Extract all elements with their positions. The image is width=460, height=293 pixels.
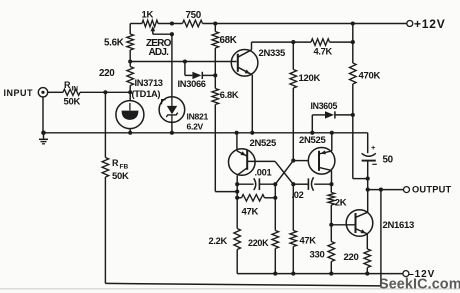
svg-text:2N525: 2N525 xyxy=(250,138,278,149)
svg-text:2N1613: 2N1613 xyxy=(383,220,414,231)
svg-text:R: R xyxy=(64,80,71,90)
svg-text:6.2V: 6.2V xyxy=(187,122,204,132)
svg-text:R: R xyxy=(112,158,119,168)
wire feedback bottom xyxy=(105,283,381,286)
resistor 47K (right) xyxy=(292,184,294,230)
wire Q2 base line xyxy=(247,160,275,162)
svg-text:OUTPUT: OUTPUT xyxy=(412,184,452,194)
svg-text:120K: 120K xyxy=(299,73,321,84)
svg-text:IN: IN xyxy=(72,86,79,93)
wire top supply rail xyxy=(130,23,142,25)
svg-text:SeekIC.com: SeekIC.com xyxy=(379,277,460,293)
resistor 68K xyxy=(214,24,216,32)
svg-text:FB: FB xyxy=(120,164,129,171)
wire -12V rail xyxy=(237,273,403,275)
svg-text:2N335: 2N335 xyxy=(259,48,287,59)
svg-text:IN3713: IN3713 xyxy=(135,78,163,88)
INPUT terminal xyxy=(38,88,47,97)
svg-text:+: + xyxy=(371,143,376,152)
capacitor .001 xyxy=(235,182,239,186)
tunnel diode IN3713 (TD1A) xyxy=(129,92,131,100)
zener diode IN821 6.2V xyxy=(171,34,173,97)
svg-text:220: 220 xyxy=(99,68,115,79)
OUTPUT terminal xyxy=(368,189,404,191)
svg-text:50: 50 xyxy=(383,155,394,166)
resistor 220 (emitter) xyxy=(364,249,371,268)
resistor 470K xyxy=(352,24,354,64)
diode IN3605 xyxy=(312,114,325,116)
resistor 220 xyxy=(127,67,134,86)
svg-text:IN3066: IN3066 xyxy=(178,79,206,89)
svg-text:50K: 50K xyxy=(64,97,81,108)
svg-text:50K: 50K xyxy=(112,171,129,182)
resistor 2.2K xyxy=(234,229,241,250)
resistor 2K xyxy=(330,184,332,192)
resistor 220K xyxy=(272,231,279,249)
svg-text:470K: 470K xyxy=(359,70,381,81)
svg-text:IN3605: IN3605 xyxy=(311,101,338,111)
diode IN3066 xyxy=(183,59,187,63)
+12V terminal xyxy=(407,21,413,27)
transistor Q2 2N525 (left) xyxy=(236,133,238,151)
potentiometer R 1K ZERO ADJ xyxy=(142,20,158,27)
svg-text:750: 750 xyxy=(186,10,202,21)
wire mid ground rail xyxy=(44,132,368,134)
svg-text:2K: 2K xyxy=(335,198,347,209)
resistor 6.8K xyxy=(212,89,219,105)
svg-text:330: 330 xyxy=(310,249,325,260)
ground xyxy=(42,97,44,133)
svg-text:47K: 47K xyxy=(242,206,259,217)
svg-text:6.8K: 6.8K xyxy=(220,90,239,100)
resistor R_FB 50K xyxy=(104,92,106,157)
resistor 330 xyxy=(329,223,333,227)
svg-text:2.2K: 2.2K xyxy=(209,236,228,246)
svg-text:5.6K: 5.6K xyxy=(104,37,124,48)
cross-coupling diagonals xyxy=(275,161,293,184)
wire 470K node down to output link xyxy=(352,115,354,179)
wire 220K branch xyxy=(274,184,276,230)
wire 6.8K line down to Q2 collector link xyxy=(214,105,216,192)
transistor Q4 2N1613 xyxy=(331,224,355,226)
wire feedback vertical xyxy=(380,190,382,286)
wire collector 2N335 to 4.7K xyxy=(252,41,312,43)
svg-text:(TD1A): (TD1A) xyxy=(132,89,161,99)
svg-text:220: 220 xyxy=(344,252,359,263)
capacitor .02 xyxy=(293,183,308,185)
resistor 47K (coupling) xyxy=(235,190,239,194)
svg-text:2N525: 2N525 xyxy=(299,135,327,146)
svg-text:68K: 68K xyxy=(220,35,237,46)
resistor R_IN 50K xyxy=(48,91,63,93)
svg-text:220K: 220K xyxy=(248,238,269,248)
scan artifact line xyxy=(0,288,460,290)
svg-text:.001: .001 xyxy=(255,167,272,177)
svg-text:47K: 47K xyxy=(300,235,317,245)
transistor Q1 2N335 xyxy=(231,50,258,77)
svg-text:+12V: +12V xyxy=(414,17,446,31)
wire bias line to 2N335 base xyxy=(130,61,236,63)
svg-text:4.7K: 4.7K xyxy=(314,47,333,57)
svg-text:INPUT: INPUT xyxy=(4,88,34,98)
svg-text:1K: 1K xyxy=(142,10,154,21)
svg-text:IN821: IN821 xyxy=(187,112,209,122)
resistor 4.7K xyxy=(311,39,330,46)
capacitor 50 (electrolytic) xyxy=(367,133,369,153)
resistor 750 xyxy=(183,20,203,27)
svg-text:.02: .02 xyxy=(292,190,304,200)
resistor 5.6K xyxy=(129,24,131,35)
svg-text:ADJ.: ADJ. xyxy=(149,47,170,58)
transistor Q3 2N525 (right) xyxy=(293,160,308,162)
-12V terminal xyxy=(403,271,409,277)
resistor 120K xyxy=(292,42,294,69)
